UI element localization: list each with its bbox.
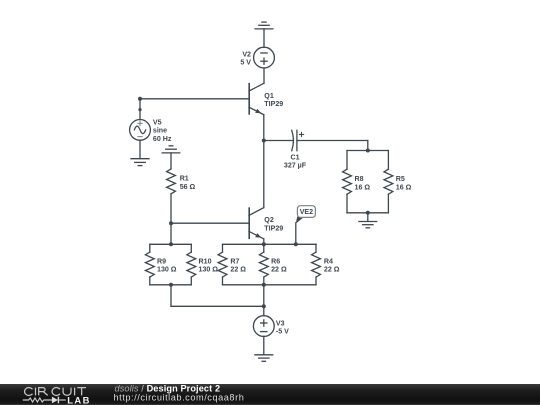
svg-text:22 Ω: 22 Ω <box>271 265 287 273</box>
wire R9/R10 top rail <box>150 243 192 245</box>
logo resistor zigzag <box>23 398 52 402</box>
wire R7..R4 top rail <box>223 243 317 245</box>
wire V5 to junction <box>139 99 141 120</box>
resistor R7 <box>218 244 227 284</box>
svg-text:R8: R8 <box>355 175 364 183</box>
svg-text:60 Hz: 60 Hz <box>153 135 172 143</box>
wire junction down to R9/R10 <box>170 223 172 244</box>
wire to ground below R8/R5 <box>367 213 369 222</box>
transistor Q2 <box>249 208 264 239</box>
wire R6 bottom down <box>263 285 265 307</box>
node junction V5 top <box>138 97 142 101</box>
label R9 130 ohm <box>157 258 177 274</box>
ground (above R1) <box>162 146 180 153</box>
node junction R1 / Q2 base <box>169 221 173 225</box>
node junction Q1 emitter / C1 <box>262 139 266 143</box>
wire junction to C1 <box>264 140 294 142</box>
svg-text:TIP29: TIP29 <box>264 100 283 108</box>
resistor R6 <box>259 244 268 284</box>
node junction above V3 <box>262 304 266 308</box>
wire V5 to ground <box>139 140 141 158</box>
label Q1 TIP29 <box>264 92 283 108</box>
ground (below V5) <box>131 159 149 166</box>
capacitor C1 <box>292 130 304 150</box>
svg-text:22 Ω: 22 Ω <box>324 265 340 273</box>
wire Q2 emitter down <box>263 239 265 244</box>
voltage source V5 (sine) <box>130 119 151 140</box>
node junction top rail R9/R10 <box>169 242 173 246</box>
label V3 -5 V <box>276 320 289 336</box>
label Q2 TIP29 <box>264 216 283 232</box>
svg-text:130 Ω: 130 Ω <box>157 265 177 273</box>
resistor R10 <box>187 244 196 284</box>
svg-text:sine: sine <box>153 127 167 135</box>
wire Q1 emitter down <box>263 115 265 141</box>
svg-text:V2: V2 <box>242 50 251 58</box>
label R5 16 ohm <box>396 175 412 192</box>
resistor R1 <box>167 153 176 223</box>
svg-text:16 Ω: 16 Ω <box>396 183 412 191</box>
wire Q1 base <box>140 98 249 100</box>
svg-text:22 Ω: 22 Ω <box>230 265 246 273</box>
logo diode <box>52 397 66 404</box>
wire V2 to Q1 collector <box>263 68 265 84</box>
ground (top, above V2) <box>255 22 273 29</box>
label R8 16 ohm <box>355 175 371 192</box>
svg-text:R1: R1 <box>180 175 189 183</box>
node junction R8/R5 top <box>366 149 370 153</box>
svg-text:LAB: LAB <box>67 394 91 405</box>
wire R9/R10 bottom to V3 row <box>171 285 264 307</box>
wire R8/R5 top rail <box>347 150 388 152</box>
label C1 327 uF <box>284 154 307 170</box>
node junction R8/R5 bottom <box>366 211 370 215</box>
node terminal V5 <box>138 108 141 111</box>
wire R9/R10 bottom rail <box>150 284 192 286</box>
wire R8/R5 bottom rail <box>347 212 388 214</box>
svg-text:V3: V3 <box>276 320 285 328</box>
wire ground to V2 <box>263 29 265 48</box>
ground (below V3) <box>255 355 273 362</box>
resistor R5 <box>384 151 393 213</box>
wire junction to V3 <box>263 306 265 315</box>
svg-text:TIP29: TIP29 <box>264 224 283 232</box>
svg-text:327 µF: 327 µF <box>284 161 307 169</box>
node junction VE2 rail <box>294 242 298 246</box>
voltage source V3 <box>253 316 274 337</box>
wire Q2 base <box>171 222 249 224</box>
svg-text:V5: V5 <box>153 119 162 127</box>
wire C1 to R8/R5 <box>297 141 368 151</box>
svg-text:http://circuitlab.com/cqaa8rh: http://circuitlab.com/cqaa8rh <box>114 393 245 403</box>
svg-text:130 Ω: 130 Ω <box>199 265 219 273</box>
svg-text:R5: R5 <box>396 175 405 183</box>
svg-text:Q2: Q2 <box>264 216 274 224</box>
label R6 22 ohm <box>271 258 287 274</box>
voltage source V2 <box>254 47 275 68</box>
svg-text:5 V: 5 V <box>240 58 251 66</box>
svg-text:Q1: Q1 <box>264 92 274 100</box>
svg-text:C1: C1 <box>290 154 299 162</box>
wire R7..R4 bottom rail <box>223 284 317 286</box>
resistor R8 <box>343 151 352 213</box>
wire VE2 down to rail <box>295 223 297 245</box>
logo CIRCUIT text <box>25 388 86 396</box>
svg-text:56 Ω: 56 Ω <box>180 183 196 191</box>
label V2 5 V <box>240 50 251 66</box>
label R4 22 ohm <box>324 258 340 274</box>
label R10 130 ohm <box>199 258 219 274</box>
transistor Q1 <box>249 83 264 114</box>
resistor R9 <box>145 244 154 284</box>
svg-text:VE2: VE2 <box>300 208 313 216</box>
label R1 56 ohm <box>180 175 196 192</box>
svg-text:16 Ω: 16 Ω <box>355 183 371 191</box>
node junction Q2 emitter rail <box>262 242 266 246</box>
flag VE2 <box>296 206 316 224</box>
ground (below R8/R5) <box>359 222 377 228</box>
resistor R4 <box>312 244 321 284</box>
wire Q2 collector up to C1 junction <box>263 141 265 208</box>
wire V3 to ground <box>263 336 265 354</box>
label V5 sine 60 Hz <box>153 119 172 143</box>
svg-text:-5 V: -5 V <box>276 328 289 336</box>
node junction bottom rail R6 <box>262 283 266 287</box>
label R7 22 ohm <box>230 258 246 274</box>
node junction bottom rail R9/R10 <box>169 283 173 287</box>
